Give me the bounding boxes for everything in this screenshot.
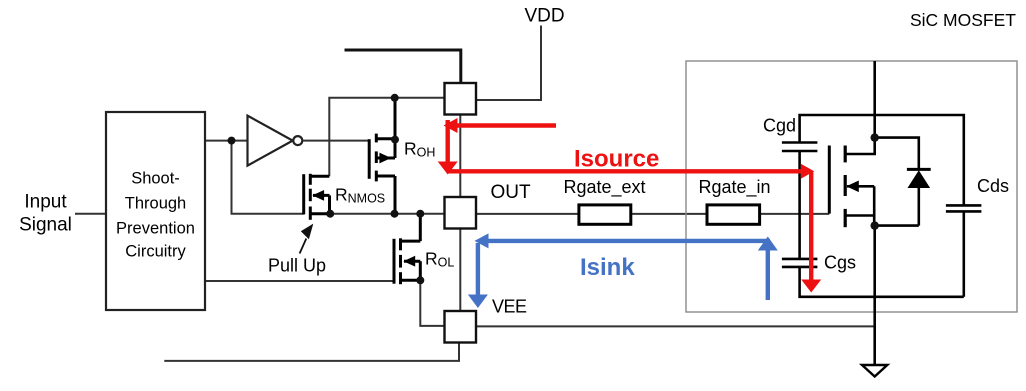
svg-text:Isink: Isink — [580, 254, 635, 281]
svg-text:Pull Up: Pull Up — [268, 256, 326, 276]
svg-text:OUT: OUT — [491, 182, 532, 203]
svg-text:Rgate_ext: Rgate_ext — [563, 177, 645, 198]
svg-text:Prevention: Prevention — [116, 220, 195, 238]
svg-text:Shoot-: Shoot- — [131, 170, 180, 188]
svg-text:SiC MOSFET: SiC MOSFET — [910, 10, 1016, 30]
svg-text:Cgd: Cgd — [763, 116, 796, 136]
svg-text:VEE: VEE — [492, 297, 527, 317]
svg-text:Cds: Cds — [977, 176, 1009, 196]
svg-text:Cgs: Cgs — [824, 253, 856, 273]
svg-text:Through: Through — [125, 195, 186, 213]
svg-text:Signal: Signal — [19, 215, 72, 236]
svg-text:Input: Input — [24, 192, 67, 213]
svg-text:VDD: VDD — [525, 6, 565, 27]
svg-text:Isource: Isource — [574, 146, 659, 173]
svg-text:Circuitry: Circuitry — [125, 243, 186, 261]
svg-text:Rgate_in: Rgate_in — [698, 177, 770, 198]
